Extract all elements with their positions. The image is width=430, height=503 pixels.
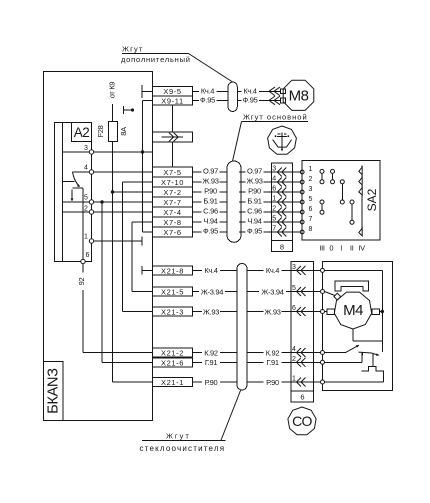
- svg-text:БКАNЗ: БКАNЗ: [46, 368, 62, 414]
- svg-text:Х21-1: Х21-1: [161, 378, 184, 387]
- svg-text:Г.91: Г.91: [266, 358, 279, 367]
- svg-text:4: 4: [292, 346, 296, 353]
- block pin 1 row, wire to SA2 pin 5: [271, 196, 312, 207]
- svg-text:7: 7: [272, 226, 276, 233]
- svg-text:0: 0: [329, 244, 333, 253]
- svg-text:Х9-5: Х9-5: [163, 87, 181, 96]
- svg-text:1: 1: [272, 196, 276, 203]
- block pin 5 row, wire to SA2 pin 7: [271, 216, 312, 227]
- svg-text:Ж-3.94: Ж-3.94: [261, 287, 283, 296]
- svg-text:Ж.93: Ж.93: [202, 176, 218, 185]
- svg-text:5: 5: [309, 196, 313, 203]
- svg-text:1: 1: [292, 376, 296, 383]
- svg-text:Х7-5: Х7-5: [163, 168, 181, 177]
- wire X21-1 net R.90: [193, 378, 292, 387]
- connector X7-8: [153, 217, 193, 227]
- wire from K9 into fuse: [108, 82, 117, 122]
- wire X7-5 net O.97: [193, 166, 272, 175]
- svg-text:5: 5: [292, 285, 296, 292]
- SA2 contact bar rows 5-6: [320, 200, 324, 214]
- svg-text:8А: 8А: [119, 127, 128, 136]
- shunt wire with brush square: [325, 292, 341, 301]
- svg-text:8: 8: [309, 226, 313, 233]
- wiper motor assembly box: [323, 262, 393, 391]
- wire X21-5 net Zh-3.94: [193, 287, 292, 296]
- pin 3 of A2: [84, 145, 94, 154]
- SA2 contact bar rows 2-5: [340, 180, 344, 204]
- svg-text:стеклоочистителя: стеклоочистителя: [140, 444, 226, 453]
- block pin 4 row (K.92): [291, 346, 323, 357]
- wire X7-10 net Zh.93: [193, 176, 272, 185]
- wire X21-6 net G.91: [193, 358, 292, 367]
- park switch common from G.91: [325, 352, 380, 362]
- block pin 2 row (G.91): [291, 356, 323, 367]
- svg-text:Х7-10: Х7-10: [161, 178, 184, 187]
- svg-text:Жгут: Жгут: [122, 45, 144, 54]
- svg-text:М8: М8: [289, 88, 309, 105]
- svg-text:Ж.93: Ж.93: [246, 176, 262, 185]
- svg-text:Б.91: Б.91: [247, 196, 261, 205]
- block pin 5 row (Zh-3.94): [291, 285, 323, 296]
- svg-text:7: 7: [309, 216, 313, 223]
- svg-text:Х7-4: Х7-4: [163, 208, 181, 217]
- pin 1 of A2, stub wire with terminal bar: [84, 234, 142, 246]
- wire X7-4 net S.96: [193, 206, 272, 215]
- block pin 1 row (R.90): [291, 376, 323, 387]
- block pin 6 row (Zh.93): [291, 305, 323, 316]
- svg-text:6: 6: [272, 186, 276, 193]
- harness oval top (dopolnitelny): [228, 82, 237, 112]
- svg-text:Х9-11: Х9-11: [161, 96, 183, 105]
- SA2 contact bar rows 5-7: [350, 200, 354, 224]
- connector X21-2: [153, 348, 193, 357]
- SA2 position labels III 0 I II IV: [319, 244, 365, 253]
- svg-text:Ч.94: Ч.94: [203, 216, 217, 225]
- svg-text:Ж-3.94: Ж-3.94: [201, 287, 223, 296]
- wire X7-7 net B.91: [193, 196, 272, 205]
- BKAN3 designation box: [44, 362, 64, 421]
- svg-text:Ж.93: Ж.93: [203, 307, 219, 316]
- wire X9-5 stub with terminal bar: [142, 85, 153, 98]
- svg-text:5: 5: [272, 216, 276, 223]
- svg-text:3: 3: [292, 264, 296, 271]
- svg-text:Р.90: Р.90: [266, 378, 279, 387]
- brush holder bracket: [335, 281, 369, 291]
- label Zhgut dopolnitelny with leader to top oval: [121, 45, 233, 83]
- fuse F28 8A: [96, 122, 128, 142]
- 6-pin connector block of wiper motor: [291, 262, 314, 403]
- park switch blade from K.92: [325, 345, 360, 353]
- svg-text:1: 1: [84, 234, 88, 241]
- svg-text:К.92: К.92: [266, 348, 280, 357]
- SA2 contact bar rows 1-2 col b: [331, 169, 335, 183]
- label Zhgut stekloochistitelya with leaders: [140, 390, 241, 453]
- svg-text:Г.91: Г.91: [205, 358, 218, 367]
- svg-text:SA2: SA2: [365, 188, 379, 211]
- connector X21-5: [153, 287, 193, 296]
- block pin 3 row, wire to SA2 pin 1: [271, 166, 312, 177]
- svg-text:О.97: О.97: [203, 166, 218, 175]
- connector X7-7: [153, 197, 193, 207]
- svg-text:IV: IV: [358, 244, 365, 253]
- connector X9-11: [153, 96, 193, 105]
- connector X7-10: [153, 177, 193, 187]
- wire net Ch.94: X7-8 to X21-5: [132, 222, 153, 292]
- link line X9 group to X7 group: [172, 105, 174, 167]
- svg-text:дополнительный: дополнительный: [121, 55, 191, 64]
- svg-text:Ф.95: Ф.95: [243, 96, 258, 105]
- connector X7-4: [153, 207, 193, 217]
- wire X7-6 net F.95: [193, 226, 272, 235]
- svg-text:от К9: от К9: [108, 82, 117, 99]
- svg-text:Х7-8: Х7-8: [163, 218, 181, 227]
- svg-text:Х21-2: Х21-2: [161, 348, 184, 357]
- svg-text:Р.90: Р.90: [248, 186, 261, 195]
- svg-text:4: 4: [272, 176, 276, 183]
- wire net F.95: pin 3 of A2 to X7-6 and X9-11: [63, 101, 153, 233]
- wire net B.91 branch to X21-6: [102, 202, 153, 362]
- relay A2 inner box: [55, 123, 92, 262]
- wire X7-2 net R.90: [193, 186, 272, 195]
- svg-text:К.92: К.92: [204, 348, 218, 357]
- svg-text:Жгут основной: Жгут основной: [243, 113, 308, 122]
- pin 6 of A2, wire 92 to X21-2: [77, 252, 152, 353]
- pin 5 of A2, wire to X7-7 (B.91): [63, 195, 153, 205]
- wire X21-8 stub with terminal bar: [142, 266, 153, 275]
- connector X7-6: [153, 227, 193, 237]
- block pin 6 row, wire to SA2 pin 3: [271, 186, 312, 197]
- svg-text:I: I: [341, 244, 343, 253]
- body terminal symbol near fuse: [124, 106, 135, 114]
- harness continuation connector with arrow: [153, 132, 193, 142]
- relay contact blade from pin 4: [63, 172, 84, 202]
- svg-text:Кч.4: Кч.4: [204, 266, 217, 275]
- motor shaft link to park switch: [353, 329, 382, 341]
- svg-text:2: 2: [309, 176, 313, 183]
- svg-text:Р.90: Р.90: [204, 186, 217, 195]
- cam follower link: [372, 353, 374, 366]
- wire X9-11 to M8 pin 2, label F.95: [193, 96, 281, 105]
- harness oval bottom (stekloochistitel): [237, 264, 247, 391]
- svg-text:Ф.95: Ф.95: [200, 96, 215, 105]
- svg-text:Кч.4: Кч.4: [266, 266, 279, 275]
- supply wire inside motor box: [325, 270, 384, 351]
- SA2 wiper rail with 4 wiper arrows: [359, 166, 362, 237]
- block pin 7 row, wire to SA2 pin 8: [271, 226, 312, 237]
- label Zhgut osnovnoy with leader to oval: [233, 113, 308, 161]
- svg-text:3: 3: [309, 186, 313, 193]
- wire X21-3 net Zh.93: [193, 307, 292, 316]
- svg-text:2: 2: [272, 206, 276, 213]
- svg-text:Б.91: Б.91: [203, 196, 217, 205]
- svg-text:Х21-5: Х21-5: [161, 287, 184, 296]
- connector X21-3: [153, 307, 193, 316]
- svg-text:6: 6: [86, 252, 90, 259]
- svg-text:6: 6: [292, 305, 296, 312]
- connector X21-8: [153, 266, 193, 275]
- svg-text:С.96: С.96: [247, 206, 262, 215]
- svg-text:Х21-8: Х21-8: [161, 266, 184, 275]
- connector X21-6: [153, 358, 193, 367]
- svg-text:2: 2: [84, 206, 88, 213]
- svg-text:8: 8: [280, 242, 284, 251]
- svg-text:92: 92: [77, 278, 86, 286]
- wire X21-8 net Kch.4: [193, 266, 292, 275]
- svg-text:М4: М4: [343, 302, 363, 319]
- motor M8 (washer pump): [281, 80, 314, 110]
- svg-text:3: 3: [84, 145, 88, 152]
- wire X21-2 net K.92: [193, 348, 292, 357]
- svg-text:1: 1: [309, 166, 313, 173]
- BKAN3 unit outer box: [44, 72, 153, 421]
- svg-text:СО: СО: [292, 413, 312, 429]
- svg-text:6: 6: [309, 206, 313, 213]
- R.90 wire inside motor box: [325, 381, 384, 383]
- svg-text:3: 3: [272, 166, 276, 173]
- harness designation CO: [288, 407, 316, 435]
- SA2 contact bar rows 1-2 col a: [320, 169, 324, 183]
- relay A2 label box: [72, 123, 92, 142]
- pin 4 of A2, wire to X7-5: [73, 165, 153, 175]
- 8-pin connector block of SA2: [271, 163, 292, 251]
- connector X9-5: [153, 87, 193, 97]
- svg-text:5: 5: [84, 195, 88, 202]
- washer nozzle symbol: [268, 126, 297, 154]
- block pin 2 row, wire to SA2 pin 6: [271, 206, 312, 217]
- park cam profile: [362, 367, 384, 382]
- contact to pin 6 drop wire: [82, 188, 84, 262]
- switch SA2: [302, 160, 380, 240]
- svg-text:Ф.95: Ф.95: [247, 226, 262, 235]
- pin 2 of A2, wire to X7-4 (S.96): [63, 206, 153, 215]
- svg-text:F28: F28: [96, 125, 105, 137]
- connector X7-5: [153, 167, 193, 177]
- svg-text:А2: А2: [74, 125, 90, 140]
- right brush terminal: [372, 309, 383, 315]
- internal bus of A2: [62, 123, 64, 262]
- wire X7-8 net Ch.94: [193, 216, 272, 225]
- svg-text:Жгут: Жгут: [166, 432, 191, 441]
- left brush terminal: [325, 309, 335, 315]
- connector X21-1: [153, 378, 193, 387]
- svg-text:Кч.4: Кч.4: [201, 86, 214, 95]
- motor box terminal nodes: [321, 268, 325, 384]
- svg-text:6: 6: [300, 392, 304, 401]
- wire net R.90: fuse output to X7-2 and X21-1: [111, 142, 153, 383]
- svg-text:III: III: [319, 244, 325, 253]
- svg-text:4: 4: [84, 165, 88, 172]
- svg-text:Х7-2: Х7-2: [163, 188, 181, 197]
- svg-text:2: 2: [292, 356, 296, 363]
- svg-text:Ч.94: Ч.94: [247, 216, 261, 225]
- svg-text:О.97: О.97: [247, 166, 262, 175]
- connector X7-2: [153, 187, 193, 197]
- wire net Zh.93: X7-10 to X21-3: [122, 182, 152, 312]
- block pin 4 row, wire to SA2 pin 2: [271, 176, 312, 187]
- block pin 3 row (Kch.4): [291, 264, 323, 275]
- svg-text:Х7-6: Х7-6: [163, 228, 181, 237]
- svg-text:Кч.4: Кч.4: [243, 86, 256, 95]
- svg-text:Х21-3: Х21-3: [161, 307, 184, 316]
- svg-text:Ж.93: Ж.93: [264, 307, 280, 316]
- motor M4: [334, 292, 371, 329]
- svg-text:С.96: С.96: [203, 206, 218, 215]
- wire X9-5 to M8 pin 1, label Kch.4: [193, 86, 281, 95]
- svg-text:Х7-7: Х7-7: [163, 198, 181, 207]
- svg-text:Ф.95: Ф.95: [203, 226, 218, 235]
- svg-text:Х21-6: Х21-6: [161, 358, 184, 367]
- harness oval middle (osnovnoy): [227, 161, 241, 242]
- svg-text:II: II: [350, 244, 354, 253]
- svg-text:Р.90: Р.90: [205, 378, 218, 387]
